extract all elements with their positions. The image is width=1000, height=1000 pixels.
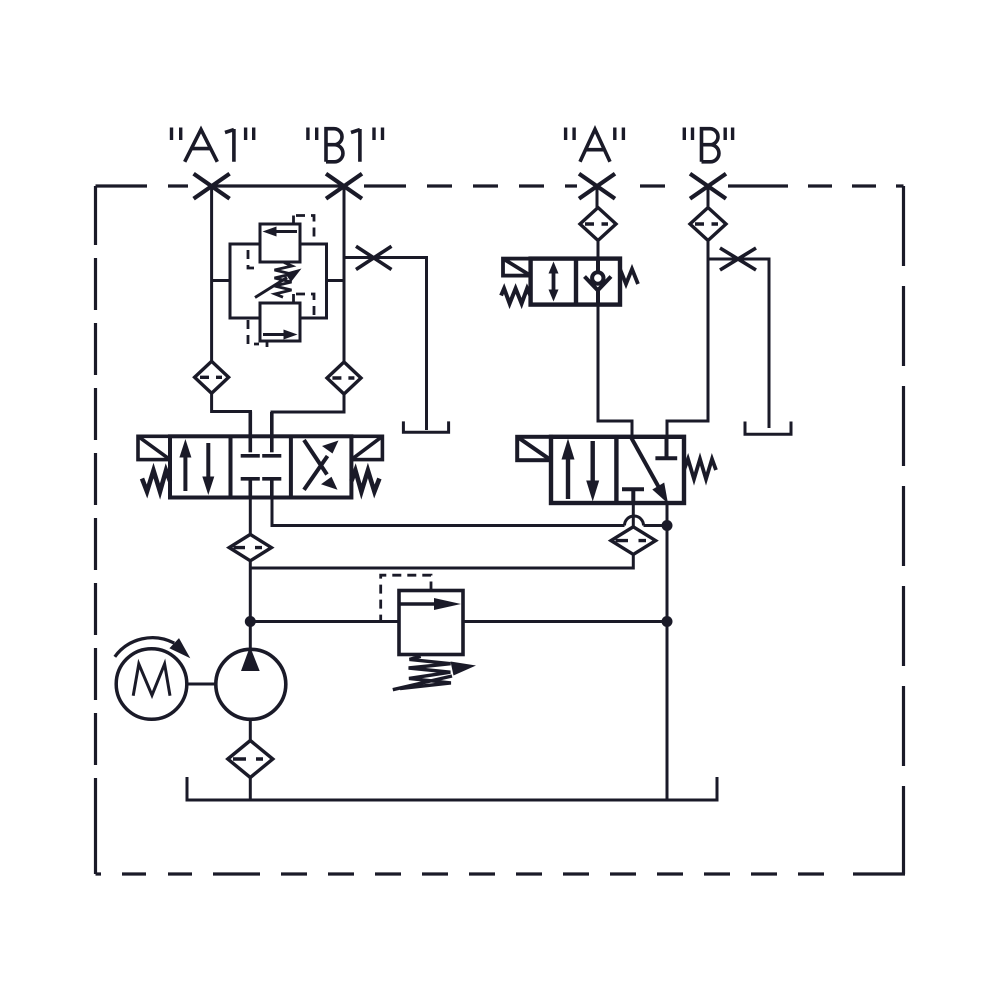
wire drain orifice to pressure line [250,555,633,569]
wire pump pressure column [249,561,252,650]
electric motor M [116,649,187,720]
tank line [187,777,717,800]
wire orifice to 2/2 valve [597,241,600,259]
wire hop to drain column [644,524,668,527]
bridge adjustment arrow [255,278,287,298]
wire pump to suction filter [249,719,252,741]
4/2 right position diagonal arrow [631,437,668,504]
bridge pilot line bottom-left (dashed) [248,320,267,347]
4/3 left solenoid [138,436,170,459]
motor letter M [133,664,170,696]
wire B1 orifice to valve port [272,394,344,436]
label "A" [566,128,624,162]
4/3 left position arrows [179,439,214,495]
wire B1 down to orifice [343,186,346,363]
4/3 left spring [142,471,170,492]
wire filter to tank [249,778,252,801]
wire B port to orifice [707,186,710,208]
enclosure dashed border [96,186,906,874]
motor rotation arrow [115,638,174,657]
2/2 solenoid [503,259,531,276]
bridge pilot line top-right (dashed) [294,216,315,242]
counterbalance bridge outer frame [230,244,327,318]
tank symbol left-middle [403,421,448,432]
4/2 blocked port bottom [622,489,644,503]
2/2 right spring [620,269,638,284]
wire T port down and right [272,498,625,526]
label "B" [684,128,732,162]
wire relief valve to drain column [463,620,667,623]
orifice below 4/3 valve [229,534,271,560]
counterbalance relief valve top (box with left arrow) [260,224,300,262]
4/2 left position arrows [562,439,600,502]
hydraulic pump [216,647,286,720]
4/3 right spring [351,471,379,492]
bridge center spring [275,263,293,298]
orifice below 4/2 valve [611,527,656,555]
orifice below B [690,208,726,241]
wire bridge right to B1 [327,279,345,282]
wire pressure line to relief valve [250,620,399,623]
label "B1" [308,128,383,162]
4/3 centre position blocked ports [241,412,282,498]
orifice below A1 [195,361,229,393]
port A1 plug X [194,174,230,199]
wire A port to orifice [596,186,599,208]
line hop over drain [625,516,644,526]
bridge pilot line bottom-right (dashed) [294,294,315,316]
junction dot drain upper [662,520,673,531]
wire 2/2 valve down to 4/2 valve [598,305,632,437]
branch plug X left [356,246,392,269]
port B1 plug X [326,174,362,199]
wire B1 branch to X and tank [344,258,427,431]
relief valve spring [400,656,451,688]
4/2 right spring [684,459,716,479]
directional valve 4/2 body [551,437,684,503]
label "A1" [172,128,254,162]
wire 4/2 drain port to orifice [632,503,635,527]
branch plug X right [720,248,756,270]
directional valve 4/3 body [170,436,351,497]
4/2 solenoid [517,437,551,460]
2/2 left position double arrow [549,262,559,302]
wire A1 to bridge left [212,279,230,282]
wire A1 orifice to valve port [212,393,251,436]
wire P port to orifice [249,498,252,535]
counterbalance relief valve bottom (box with right arrow) [260,303,300,341]
suction filter [228,741,273,778]
motor-pump shaft [187,683,217,686]
wire drain column to tank [666,504,669,801]
junction dot drain lower [662,616,673,627]
wire B branch to X and tank [708,259,769,428]
orifice below A [580,208,616,241]
4/3 right position crossed arrows [304,440,339,490]
4/3 right solenoid [351,436,382,459]
wire A1 down to orifice [210,186,213,362]
bridge pilot line left (dashed) [248,250,259,268]
port B plug X [690,174,726,199]
orifice below B1 [327,362,361,394]
2/2 lower spring [501,289,531,304]
relief valve RV box [399,591,463,655]
4/2 blocked port top [655,437,677,459]
junction dot pump line [245,616,256,627]
solenoid valve 2/2 body [531,259,620,305]
2/2 right position check valve [585,259,612,305]
relief valve adjustment arrow [393,676,452,690]
tank symbol right [745,422,791,435]
relief valve pilot (dashed) [381,575,431,621]
port A plug X [579,174,615,199]
wire B column down [667,241,708,437]
